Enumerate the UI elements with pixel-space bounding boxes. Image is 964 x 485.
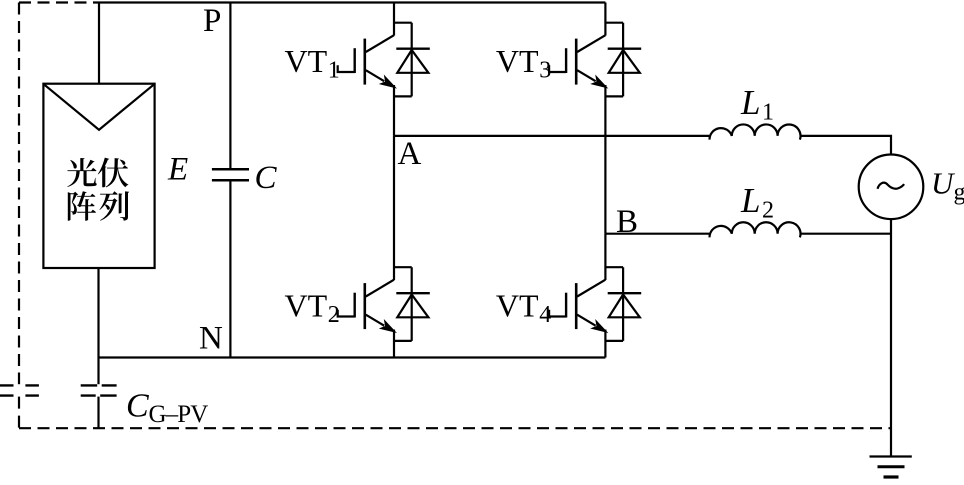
svg-text:g: g bbox=[954, 180, 964, 206]
wire: N rail (bottom DC bus) bbox=[99, 356, 606, 358]
wire: bottom jog from diode anode to VT3 emitter bbox=[605, 95, 623, 97]
svg-text:C: C bbox=[255, 160, 278, 196]
wire: PV negative lead down to N rail bbox=[97, 268, 99, 358]
svg-text:L: L bbox=[740, 181, 760, 220]
wire: bottom jog from diode anode to VT4 emitter bbox=[605, 340, 623, 342]
PV array chevron symbol bbox=[45, 85, 154, 130]
wire: gate lead of VT1 bbox=[338, 65, 355, 72]
wire: dashed parasitic-loop top segment bbox=[19, 1, 96, 3]
wire: gate lead of VT4 bbox=[549, 310, 566, 317]
wire: collector lead of VT3 bbox=[604, 3, 606, 36]
wire: emitter lead of VT4 bbox=[604, 330, 606, 358]
wire: from L2 to grid-source vertical bbox=[800, 233, 891, 235]
transistor VT3 (IGBT body) bbox=[566, 35, 607, 87]
wire: emitter lead of VT2 bbox=[393, 330, 395, 358]
capacitor C (DC link) bbox=[212, 169, 249, 180]
transistor VT1 (IGBT body) bbox=[355, 35, 396, 87]
transistor VT4 (IGBT body) bbox=[566, 280, 607, 333]
svg-text:VT: VT bbox=[285, 287, 328, 323]
wire: bottom jog from diode anode to VT1 emitter bbox=[394, 95, 412, 97]
diode antiparallel with VT4 bbox=[608, 267, 642, 341]
diode antiparallel with VT2 bbox=[396, 267, 430, 341]
diode antiparallel with VT1 bbox=[396, 23, 430, 97]
wire: collector lead of VT1 bbox=[393, 3, 395, 36]
wire: collector lead of VT4 bbox=[604, 234, 606, 280]
wire: top jog from VT4 collector to diode cathode bbox=[605, 266, 623, 268]
wire: from L1 to grid source (corner down to source top) bbox=[800, 136, 891, 155]
wire: dashed left segment below stray capacitor bbox=[18, 397, 20, 429]
ground (earth) symbol bbox=[870, 457, 912, 478]
label: PV array text 阵列 (line 2) bbox=[68, 191, 129, 221]
inductor L1 bbox=[709, 124, 800, 139]
wire: DC-link vertical bus between P and N bbox=[229, 3, 231, 358]
svg-text:VT: VT bbox=[496, 43, 539, 79]
svg-text:U: U bbox=[931, 166, 956, 201]
wire: PV positive lead to P rail bbox=[98, 3, 100, 84]
svg-text:B: B bbox=[616, 204, 638, 240]
PV array box 光伏阵列 bbox=[43, 84, 154, 268]
svg-text:N: N bbox=[199, 321, 223, 357]
wire: dashed parasitic-loop left segment bbox=[18, 3, 20, 385]
wire: node B line from right bridge leg to L2 bbox=[605, 233, 709, 235]
svg-text:L: L bbox=[740, 83, 760, 122]
wire: emitter lead of VT3 bbox=[604, 85, 606, 234]
wire: dashed ground-return bottom segment bbox=[19, 427, 891, 429]
svg-text:A: A bbox=[398, 136, 422, 172]
transistor VT2 (IGBT body) bbox=[355, 280, 396, 333]
wire: gate lead of VT3 bbox=[549, 65, 566, 72]
svg-text:VT: VT bbox=[496, 287, 539, 323]
capacitor C_G-PV (dashed plates) bbox=[81, 385, 117, 395]
svg-text:1: 1 bbox=[762, 100, 774, 126]
wire: branch from N junction down to C_G-PV bbox=[97, 358, 99, 385]
svg-text:2: 2 bbox=[762, 198, 774, 224]
wire: bottom jog from diode anode to VT2 emitter bbox=[394, 340, 412, 342]
wire: top jog from VT1 collector to diode cathode bbox=[394, 22, 412, 24]
diode antiparallel with VT3 bbox=[608, 23, 642, 97]
svg-text:P: P bbox=[203, 3, 221, 39]
wire: top jog from VT3 collector to diode cathode bbox=[605, 22, 623, 24]
wire: P rail (top DC bus) bbox=[96, 1, 605, 3]
svg-text:2: 2 bbox=[328, 302, 340, 328]
svg-text:C: C bbox=[126, 388, 149, 425]
AC source Ug (grid) bbox=[859, 155, 924, 220]
wire: from C_G-PV down to dashed ground return bbox=[97, 397, 99, 429]
wire: from source bottom down to earth ground bbox=[890, 219, 892, 456]
wire: emitter lead of VT1 bbox=[393, 85, 395, 136]
label: PV array text 光伏 (line 1) bbox=[67, 158, 128, 188]
wire: gate lead of VT2 bbox=[338, 310, 355, 317]
wire: node A line from left bridge leg to L1 bbox=[394, 135, 709, 137]
wire: collector lead of VT2 bbox=[393, 136, 395, 280]
inductor L2 bbox=[709, 222, 800, 237]
svg-text:1: 1 bbox=[328, 58, 340, 84]
svg-text:4: 4 bbox=[539, 302, 551, 328]
wire: top jog from VT2 collector to diode cathode bbox=[394, 266, 412, 268]
svg-text:VT: VT bbox=[285, 43, 328, 79]
capacitor: stray capacitance to ground (left, dashed plates) bbox=[0, 385, 39, 395]
svg-text:G–PV: G–PV bbox=[149, 401, 209, 428]
svg-text:E: E bbox=[167, 151, 188, 187]
AC source sine symbol bbox=[878, 183, 905, 189]
svg-text:3: 3 bbox=[539, 58, 551, 84]
